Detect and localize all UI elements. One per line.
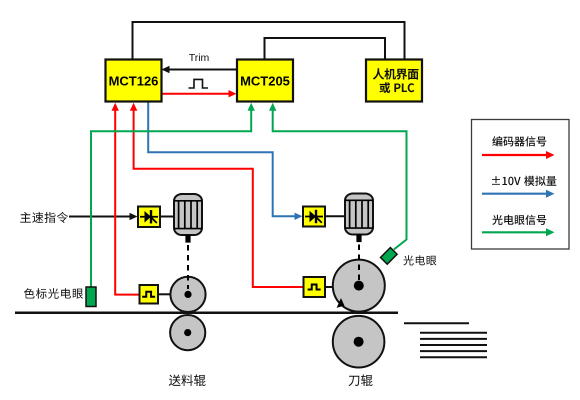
svg-text:MCT126: MCT126 — [109, 74, 159, 89]
svg-text:MCT205: MCT205 — [240, 74, 290, 89]
svg-text:Trim: Trim — [189, 52, 210, 64]
